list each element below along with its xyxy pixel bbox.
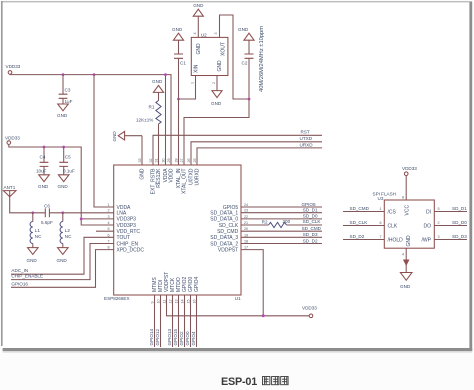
svg-text:CHIP_EN: CHIP_EN	[117, 241, 139, 247]
wire MTDO stub	[178, 295, 180, 347]
svg-text:SD_D2: SD_D2	[350, 234, 365, 239]
svg-text:2: 2	[107, 209, 109, 213]
svg-text:GPIO0: GPIO0	[185, 331, 190, 345]
svg-text:GPIO13: GPIO13	[167, 328, 172, 345]
port VDD33 (bottom)	[302, 306, 317, 318]
svg-text:VDD33: VDD33	[402, 166, 417, 171]
resistor R1 12K 1%	[136, 101, 161, 125]
svg-text:/WP: /WP	[422, 237, 432, 243]
svg-text:RST: RST	[301, 130, 310, 135]
svg-text:GND: GND	[217, 60, 223, 72]
wire DO to SD_D0	[434, 225, 467, 227]
svg-text:GND: GND	[172, 27, 183, 32]
svg-text:VDD33: VDD33	[5, 136, 20, 141]
svg-text:18: 18	[244, 240, 248, 244]
svg-text:GND: GND	[152, 79, 163, 84]
svg-text:28: 28	[175, 158, 179, 162]
svg-text:GND: GND	[193, 3, 204, 8]
svg-text:GND: GND	[57, 258, 68, 263]
capacitor C5	[59, 147, 75, 175]
svg-text:GPIO12: GPIO12	[155, 328, 160, 345]
svg-text:XTAL_OUT: XTAL_OUT	[182, 169, 188, 194]
ground below C5	[58, 175, 70, 189]
svg-text:VDD33: VDD33	[6, 64, 21, 69]
svg-text:L1: L1	[35, 228, 41, 233]
svg-text:GND: GND	[400, 284, 411, 289]
port VDD33 (top-left)	[6, 64, 21, 74]
svg-text:RES12K: RES12K	[156, 168, 162, 188]
U1 bottom pin numbers (rotated)	[150, 299, 196, 303]
svg-text:VDDPST: VDDPST	[218, 247, 238, 253]
svg-text:14: 14	[180, 299, 184, 303]
svg-text:GND: GND	[27, 258, 38, 263]
wire GPIO16 to XPD_DCDC	[11, 250, 114, 288]
svg-text:GPIO15: GPIO15	[173, 328, 178, 345]
wire GPIO4 stub	[196, 295, 198, 347]
wire SD_CMD to /CS	[343, 211, 384, 213]
svg-text:SD_DATA_3: SD_DATA_3	[210, 235, 238, 241]
svg-text:VCC: VCC	[405, 205, 411, 216]
svg-text:10uF: 10uF	[36, 168, 47, 173]
svg-text:GPIO2: GPIO2	[179, 331, 184, 345]
svg-text:16: 16	[192, 299, 196, 303]
svg-text:22: 22	[244, 215, 248, 219]
U1 right pin names	[210, 205, 239, 254]
svg-text:SPI FLASH: SPI FLASH	[373, 191, 397, 196]
resistor R2 200	[262, 219, 291, 227]
svg-text:13: 13	[174, 299, 178, 303]
svg-text:GND: GND	[211, 101, 222, 106]
svg-text:SD_DATA_2: SD_DATA_2	[210, 241, 238, 247]
svg-text:17: 17	[244, 246, 248, 250]
wire MTCK stub	[172, 295, 174, 347]
svg-text:GND: GND	[406, 235, 412, 247]
capacitor C1	[174, 40, 186, 99]
svg-text:U2: U2	[201, 32, 207, 37]
capacitor C3	[59, 75, 73, 105]
node pin3 branch junction	[80, 218, 83, 221]
svg-text:C4: C4	[40, 155, 46, 160]
svg-text:29: 29	[167, 158, 171, 162]
svg-text:24: 24	[244, 203, 248, 207]
svg-text:SD_D3: SD_D3	[303, 232, 318, 237]
svg-text:3: 3	[438, 235, 440, 239]
node LNA-L2 junction	[61, 211, 64, 214]
wire CHIP_ENABLE to CHIP_EN	[11, 244, 114, 280]
svg-text:UTXD: UTXD	[300, 136, 313, 141]
node rail-VDDA junction	[93, 73, 96, 76]
svg-text:GND: GND	[140, 168, 146, 180]
wire VDDPST bottom rail	[167, 295, 310, 316]
svg-text:R2: R2	[262, 219, 268, 224]
svg-text:GND: GND	[58, 184, 69, 189]
wire SD_CMD net	[241, 230, 322, 232]
U1 top pin numbers (rotated)	[138, 158, 197, 162]
svg-text:URXD: URXD	[300, 142, 314, 147]
wire MTMS stub	[154, 295, 156, 347]
svg-text:GND: GND	[38, 184, 49, 189]
U1 right pin numbers 24-17	[244, 203, 248, 250]
node XTAL_IN junction	[177, 98, 180, 101]
svg-text:1uF: 1uF	[65, 99, 73, 104]
svg-text:TOUT: TOUT	[117, 235, 131, 241]
svg-text:SD_CMD: SD_CMD	[217, 229, 239, 235]
wire SD_D0 net	[241, 218, 322, 220]
svg-text:GPIO16: GPIO16	[11, 282, 28, 287]
crystal U2	[191, 32, 228, 75]
svg-text:5.6pF: 5.6pF	[41, 220, 53, 225]
svg-text:SD_CLK: SD_CLK	[350, 220, 369, 225]
svg-text:12K±1%: 12K±1%	[136, 117, 153, 122]
caption chinese title blocks	[263, 377, 289, 385]
svg-text:GPIO5: GPIO5	[301, 202, 315, 207]
svg-text:U1: U1	[235, 296, 241, 301]
wire branch to pin 3	[81, 218, 114, 220]
node rail junction	[262, 314, 265, 317]
svg-text:C6: C6	[44, 203, 50, 208]
ground below L1	[27, 248, 39, 263]
port VDD33 (mid-left)	[5, 136, 20, 145]
svg-text:NC: NC	[65, 234, 72, 239]
wire DI to SD_D1	[434, 211, 467, 213]
svg-text:U3: U3	[378, 196, 384, 201]
wire SD_D1 net	[241, 212, 322, 214]
wire VDD33 rail 2	[9, 144, 114, 225]
ground below C4	[38, 175, 49, 189]
svg-text:GND: GND	[57, 113, 68, 118]
svg-text:LNA: LNA	[117, 211, 127, 217]
svg-text:GPIO4: GPIO4	[194, 276, 200, 292]
svg-text:DI: DI	[426, 209, 431, 215]
wire SD_D2 net	[241, 243, 322, 245]
svg-text:ANT1: ANT1	[4, 185, 16, 190]
svg-text:2: 2	[212, 82, 216, 84]
svg-text:7: 7	[107, 240, 109, 244]
svg-text:SD_CLK: SD_CLK	[219, 223, 239, 229]
svg-text:19: 19	[244, 233, 248, 237]
U1 bottom pin names (rotated)	[152, 272, 200, 292]
svg-text:CLK: CLK	[388, 223, 398, 229]
wire UTXD net	[191, 142, 322, 165]
svg-text:XOUT: XOUT	[221, 42, 227, 56]
svg-text:21: 21	[244, 221, 248, 225]
svg-text:25: 25	[193, 158, 197, 162]
svg-text:CHIP_ENABLE: CHIP_ENABLE	[11, 274, 43, 279]
svg-text:XIN: XIN	[194, 64, 200, 73]
node rail2-C5 junction	[62, 146, 65, 149]
inductor L1	[30, 213, 42, 248]
svg-text:10: 10	[156, 299, 160, 303]
capacitor C2	[242, 40, 254, 99]
svg-text:ADC_IN: ADC_IN	[11, 268, 28, 273]
svg-text:4: 4	[193, 32, 197, 34]
svg-text:27: 27	[180, 158, 184, 162]
node XTAL_OUT junction	[248, 98, 251, 101]
svg-text:SD_CMD: SD_CMD	[350, 206, 370, 211]
wire VDD33 rail to U1 VDDA/VDDD	[10, 74, 171, 165]
svg-text:C3: C3	[65, 88, 71, 93]
svg-text:11: 11	[162, 300, 166, 304]
svg-text:DO: DO	[424, 223, 432, 229]
svg-text:1: 1	[379, 207, 381, 211]
svg-text:ESP-01: ESP-01	[221, 376, 257, 388]
ground (left arrow at GND pin)	[112, 131, 142, 142]
inductor L2	[60, 213, 72, 248]
wire MTDI stub	[160, 295, 162, 347]
svg-text:C5: C5	[65, 155, 71, 160]
svg-text:SD_D1: SD_D1	[452, 206, 467, 211]
svg-text:SD_CMD: SD_CMD	[302, 226, 322, 231]
ground below U2 pin 2	[211, 91, 222, 106]
svg-text:6: 6	[379, 221, 381, 225]
svg-text:1: 1	[107, 203, 109, 207]
U1 top pin names (rotated)	[140, 168, 201, 195]
ground above C1	[172, 27, 184, 40]
wire XTAL_IN to pin 28	[178, 99, 180, 165]
svg-text:VDD33: VDD33	[302, 306, 317, 311]
svg-text:GND: GND	[196, 43, 202, 55]
svg-text:XPD_DCDC: XPD_DCDC	[117, 247, 145, 253]
wire RST net	[153, 135, 322, 165]
svg-text:/CS: /CS	[388, 209, 397, 215]
ground below U3	[400, 273, 412, 290]
svg-text:6: 6	[107, 233, 109, 237]
svg-text:15: 15	[186, 299, 190, 303]
svg-text:4: 4	[107, 221, 109, 225]
wire VDD_RTC stub	[96, 230, 114, 232]
svg-text:31: 31	[155, 158, 159, 162]
svg-text:40M/26M/24MHz ±10ppm: 40M/26M/24MHz ±10ppm	[259, 26, 265, 92]
svg-text:3: 3	[107, 215, 109, 219]
node rail-C3 junction	[62, 73, 65, 76]
svg-text:0.1uF: 0.1uF	[63, 168, 75, 173]
svg-text:SD_D2: SD_D2	[303, 238, 318, 243]
wire U2 pin1 to XTAL_IN node	[179, 76, 196, 100]
wire VDD33 to VCC pin 8	[405, 176, 407, 201]
ground above U2 pin 4	[193, 3, 204, 37]
wire U2 pin2 to ground	[216, 76, 218, 91]
svg-text:VDDD: VDDD	[169, 168, 175, 183]
svg-text:GND: GND	[238, 27, 249, 32]
capacitor C6 (series)	[41, 203, 114, 225]
wire SD_D2 to /HOLD	[343, 239, 384, 241]
svg-text:2: 2	[438, 221, 440, 225]
svg-text:VDD_RTC: VDD_RTC	[117, 229, 141, 235]
capacitor C4	[36, 147, 48, 175]
port VDD33 (flash)	[402, 166, 417, 175]
svg-text:GPIO4: GPIO4	[191, 331, 196, 345]
svg-text:23: 23	[244, 209, 248, 213]
wire GPIO0 stub	[190, 295, 192, 347]
svg-text:3: 3	[214, 32, 218, 34]
svg-text:GND: GND	[112, 131, 117, 142]
svg-text:200: 200	[283, 219, 291, 224]
wire ADC_IN to TOUT	[11, 237, 114, 274]
wire SD_CLK to CLK	[343, 225, 384, 227]
svg-text:33: 33	[138, 158, 142, 162]
svg-text:9: 9	[150, 301, 154, 303]
op-amp U1 ESP8266EX body	[104, 165, 241, 301]
svg-text:SD_D1: SD_D1	[303, 208, 318, 213]
svg-text:U0RXD: U0RXD	[195, 168, 201, 185]
svg-text:SD_D0: SD_D0	[452, 220, 467, 225]
node rail-pin30 junction	[164, 73, 167, 76]
memory U3 SPI FLASH body	[373, 191, 435, 248]
svg-text:5: 5	[438, 207, 440, 211]
svg-text:SD_D3: SD_D3	[452, 234, 467, 239]
svg-text:30: 30	[162, 158, 166, 162]
wire SD_CLK net right of R2	[287, 224, 323, 226]
wire GND to pin 33	[141, 136, 143, 165]
wire SD_CLK net left of R2	[241, 224, 269, 226]
svg-text:C1: C1	[180, 61, 186, 66]
ground above C2	[238, 27, 254, 40]
ground below C3	[57, 104, 68, 118]
svg-text:ESP8266EX: ESP8266EX	[104, 296, 130, 301]
node rail2-C4 junction	[43, 146, 46, 149]
wire pin30 branch	[165, 75, 167, 165]
svg-text:1: 1	[191, 82, 195, 84]
svg-text:20: 20	[244, 227, 248, 231]
svg-text:5: 5	[107, 227, 109, 231]
svg-text:SD_DATA_0: SD_DATA_0	[210, 217, 238, 223]
node LNA-L1 junction	[31, 211, 34, 214]
svg-text:12: 12	[168, 299, 172, 303]
wire GPIO2 stub	[184, 295, 186, 347]
svg-text:NC: NC	[35, 234, 42, 239]
wire SD_D3 net	[241, 236, 322, 238]
svg-text:7: 7	[379, 235, 381, 239]
wire R1 to pin 31	[158, 124, 160, 165]
ground above R1	[152, 79, 164, 100]
svg-text:C2: C2	[242, 61, 248, 66]
antenna ANT1	[3, 185, 45, 213]
wire pin17 to VDD33 rail	[241, 250, 263, 316]
wire URXD net	[197, 148, 322, 165]
U1 left pin names	[117, 205, 145, 254]
svg-text:32: 32	[149, 158, 153, 162]
svg-text:4: 4	[402, 253, 404, 257]
svg-text:GPIO14: GPIO14	[149, 328, 154, 345]
svg-text:8: 8	[402, 196, 404, 200]
wire VDDA feed to pin 1	[94, 75, 114, 207]
wire XTAL_OUT to pin 27	[184, 99, 249, 165]
wire /WP to SD_D3	[434, 239, 467, 241]
svg-text:SD_CLK: SD_CLK	[303, 219, 322, 224]
svg-text:L2: L2	[65, 228, 71, 233]
svg-text:/HOLD: /HOLD	[388, 237, 404, 243]
svg-text:VDD3P3: VDD3P3	[117, 217, 137, 223]
wire GPIO5 net	[241, 206, 322, 208]
svg-text:SD_DATA_1: SD_DATA_1	[210, 211, 238, 217]
U1 left pin numbers 1-8	[107, 203, 109, 250]
ground below L2	[57, 248, 69, 263]
wire GND pin 4 down	[405, 248, 407, 272]
svg-text:8: 8	[107, 246, 109, 250]
svg-text:VDD3P3: VDD3P3	[117, 223, 137, 229]
svg-text:26: 26	[187, 158, 191, 162]
wire U2 pin3 loop to C2	[220, 15, 250, 99]
svg-text:R1: R1	[149, 104, 155, 109]
power-pin arrow on GND lead	[403, 260, 410, 267]
